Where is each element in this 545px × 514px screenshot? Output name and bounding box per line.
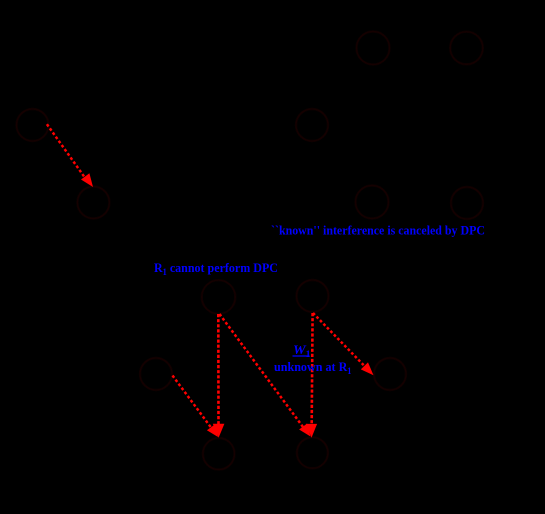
node T2 top-left diagram bbox=[17, 109, 49, 141]
svg-text:R1 cannot perform DPC: R1 cannot perform DPC bbox=[154, 260, 278, 277]
svg-text:``known'' interference is canc: ``known'' interference is canceled by DP… bbox=[271, 223, 485, 238]
node T2 bottom-left diagram bbox=[140, 358, 172, 390]
node R2 bottom-right diagram bbox=[374, 358, 406, 390]
node R1 bottom-right diagram bbox=[297, 437, 328, 468]
underline under W1 bbox=[293, 355, 310, 357]
node T3 bottom top-right diagram bbox=[356, 186, 389, 219]
node R1 bottom-left diagram bbox=[203, 438, 235, 470]
node R1 top-right diagram bbox=[450, 32, 483, 65]
interference arrow A5 vertical right bbox=[310, 313, 313, 424]
node T2 middle-left top-right diagram bbox=[296, 109, 328, 141]
node T1 bottom-left diagram bbox=[202, 280, 236, 314]
interference arrow A2 vertical left bbox=[217, 314, 220, 424]
node T1 bottom-right diagram bbox=[297, 280, 329, 312]
node R2 bottom top-right diagram bbox=[451, 187, 483, 219]
interference arrow A6 to right node bbox=[313, 313, 364, 366]
node T1 top-right diagram bbox=[357, 32, 390, 65]
interference arrow A1 top-left bbox=[47, 124, 86, 178]
node R1 top-left diagram bbox=[77, 187, 109, 219]
interference arrow A3 diagonal left bbox=[173, 376, 212, 428]
svg-text:unknown at R1: unknown at R1 bbox=[274, 359, 352, 376]
interference arrow A4 long diagonal bbox=[220, 314, 304, 427]
